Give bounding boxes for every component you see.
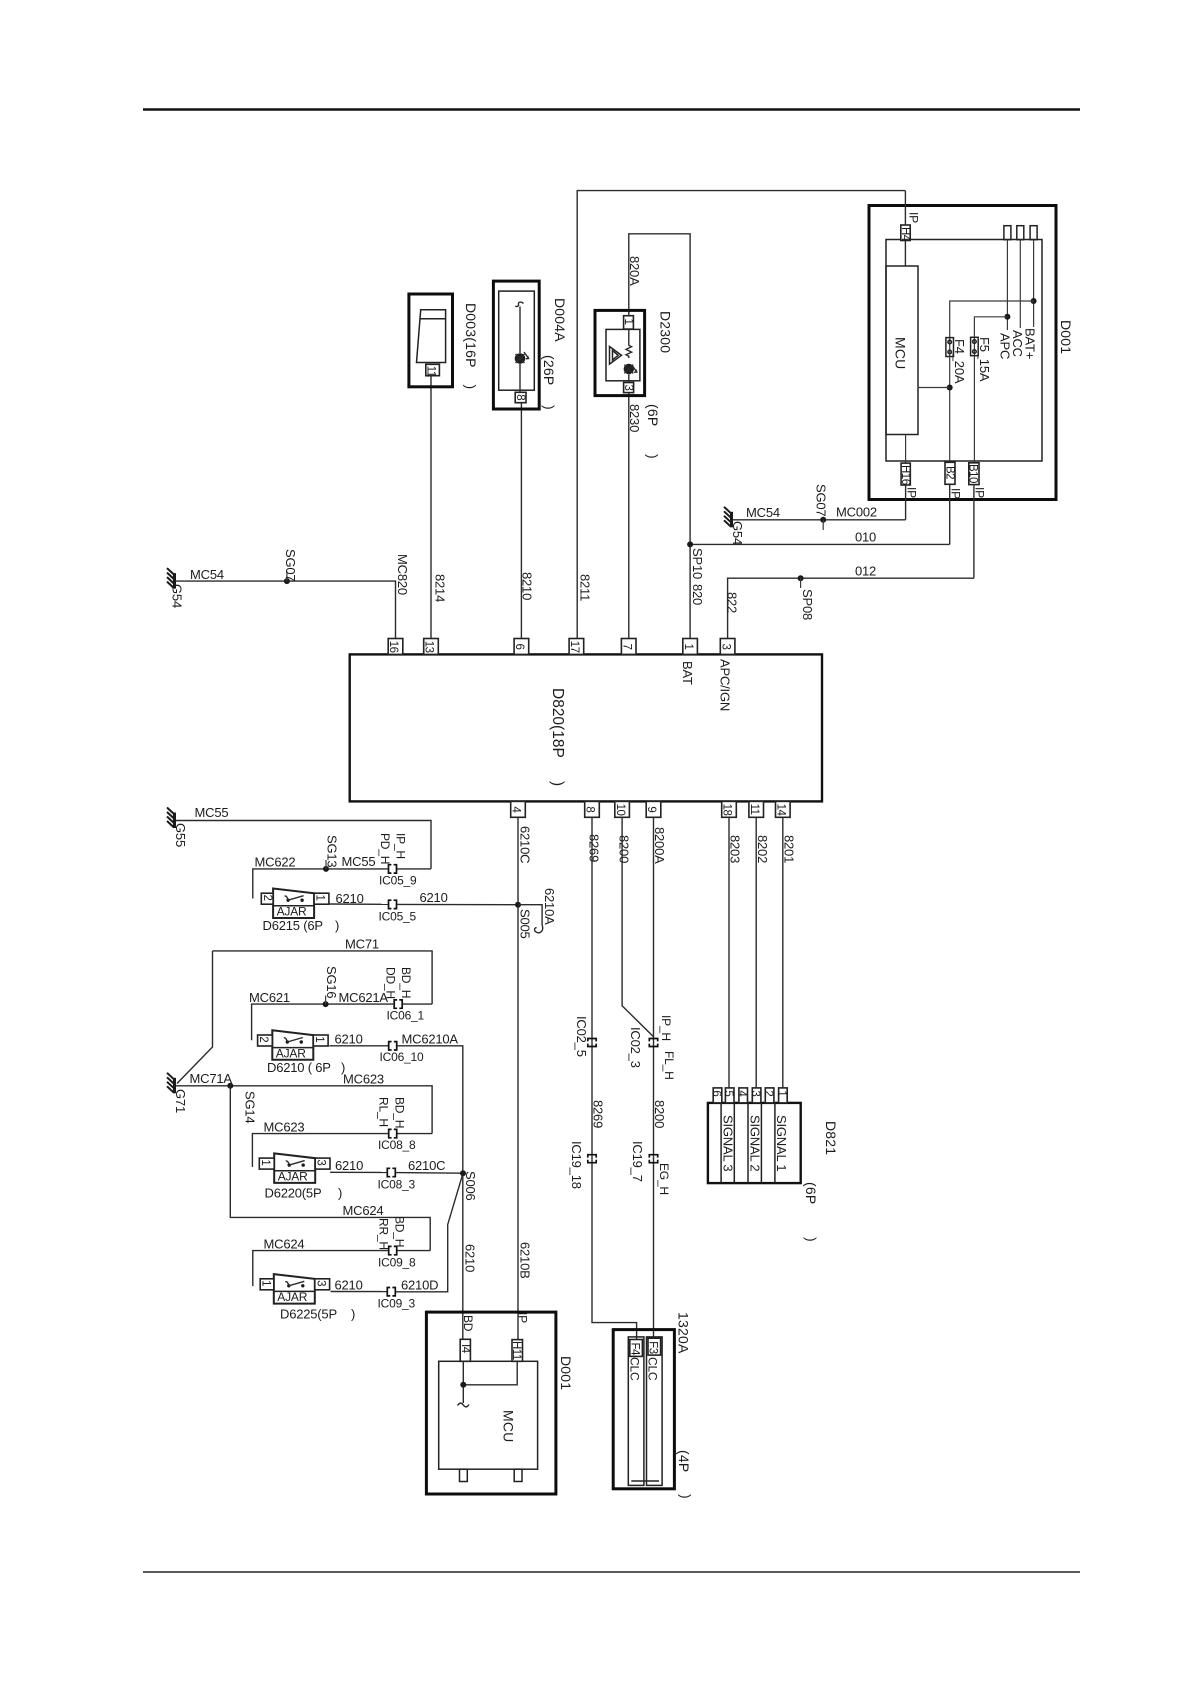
- inline connector IC02_3: [649, 1039, 657, 1047]
- svg-text:G55: G55: [173, 823, 188, 847]
- svg-text:6210C: 6210C: [518, 826, 533, 863]
- svg-text:H16: H16: [899, 465, 911, 485]
- D004A switch contact S: [515, 302, 523, 306]
- svg-text:IC02_5: IC02_5: [574, 1016, 589, 1057]
- svg-text:9: 9: [645, 806, 657, 812]
- wire 822/012 from D820 pin3 to D001 B10: [728, 578, 974, 646]
- junction APC to F5: [1004, 314, 1010, 320]
- svg-text:3: 3: [749, 1090, 761, 1096]
- control unit D820 box: [350, 654, 822, 801]
- pin 16 of D820 (top): [388, 639, 403, 655]
- svg-text:D6220(5P: D6220(5P: [265, 1186, 322, 1201]
- svg-text:SIGNAL 1: SIGNAL 1: [774, 1115, 789, 1171]
- wire MC71 top run: [213, 951, 433, 1004]
- pin 14 of D820 (bottom): [776, 801, 791, 817]
- D2300 lamp with arrow: [624, 364, 634, 374]
- pin B2 of D001: [945, 462, 955, 484]
- supply pin stub ACC: [1017, 226, 1024, 240]
- svg-text:IC19_7: IC19_7: [630, 1141, 645, 1182]
- svg-text:I4: I4: [459, 1344, 471, 1354]
- svg-text:1: 1: [682, 644, 694, 650]
- wire row4 right segment: [397, 1250, 430, 1252]
- svg-text:RL_H: RL_H: [377, 1097, 391, 1127]
- svg-text:3: 3: [622, 385, 634, 391]
- wire row2 right segment: [403, 1003, 433, 1005]
- svg-text:): ): [549, 781, 566, 786]
- svg-text:8: 8: [514, 394, 526, 400]
- dimmer unit D004A outer box: [493, 281, 539, 409]
- MCU stub pin left: [460, 1469, 468, 1481]
- pin 1 of D2300: [624, 316, 634, 329]
- svg-text:8269: 8269: [587, 834, 602, 862]
- splice SP08 on wire 012: [798, 575, 804, 581]
- svg-text:MCU: MCU: [893, 337, 909, 369]
- svg-text:H4: H4: [899, 227, 911, 242]
- svg-text:MC002: MC002: [836, 505, 877, 520]
- svg-text:): ): [338, 1186, 342, 1201]
- ground G54 (right): [724, 507, 732, 528]
- inline connector IC06_10: [389, 1042, 397, 1050]
- svg-text:(26P: (26P: [541, 355, 557, 385]
- wire 6210C to splice S006: [396, 1172, 463, 1175]
- svg-text:MC621A: MC621A: [339, 990, 389, 1005]
- wire MC71A/MC623 to row 3: [176, 1086, 432, 1134]
- svg-text:SG07: SG07: [283, 549, 298, 581]
- door switch D6215: [273, 889, 314, 919]
- wire 820A/820 from D2300 pin1 to D820 pin1: [629, 234, 690, 646]
- splice S005: [515, 902, 521, 908]
- svg-text:8269: 8269: [591, 1100, 606, 1128]
- svg-text:IP: IP: [516, 1312, 530, 1323]
- svg-text:8202: 8202: [755, 835, 770, 863]
- MCU stub pin right: [514, 1469, 522, 1481]
- wire 6210A branch: [518, 905, 542, 925]
- continuation hook 6210A: [535, 925, 543, 933]
- svg-text:IC02_3: IC02_3: [628, 1027, 643, 1068]
- internal MCU signal wires: [462, 1361, 464, 1403]
- door switch D6220: [274, 1153, 315, 1183]
- inline connector IC08_3: [387, 1168, 395, 1176]
- pin I4 of D001 bottom: [460, 1339, 470, 1361]
- svg-text:10: 10: [614, 804, 626, 816]
- svg-text:BD_H: BD_H: [393, 1216, 407, 1247]
- splice SG13: [323, 866, 329, 872]
- svg-text:8200: 8200: [617, 835, 632, 863]
- splice SG07 on MC002: [820, 517, 826, 523]
- junction MC71A: [227, 1083, 233, 1089]
- svg-text:BD_H: BD_H: [399, 967, 413, 998]
- D821 internal columns: [720, 1103, 722, 1183]
- signal unit D821 box: [708, 1103, 801, 1183]
- wire H4 to MCU: [904, 241, 906, 267]
- pin B10 of D001: [969, 463, 979, 485]
- svg-text:8201: 8201: [782, 835, 797, 863]
- svg-text:6210: 6210: [336, 891, 364, 906]
- D2300 resistor: [626, 329, 632, 358]
- svg-text:14: 14: [775, 804, 787, 817]
- svg-text:S005: S005: [518, 909, 533, 939]
- svg-text:MC55: MC55: [195, 805, 229, 820]
- svg-text:IC06_10: IC06_10: [380, 1050, 424, 1064]
- svg-text:1: 1: [260, 1280, 272, 1286]
- svg-text:): ): [335, 918, 339, 933]
- wire B10 drop to 012: [973, 485, 975, 579]
- wire B2 drop to 010: [949, 484, 951, 544]
- D2300 warning triangle: [610, 347, 622, 365]
- svg-text:SIGNAL 3: SIGNAL 3: [721, 1115, 736, 1171]
- svg-text:MC820: MC820: [395, 554, 410, 595]
- svg-text:IC09_3: IC09_3: [378, 1297, 416, 1311]
- svg-text:6210D: 6210D: [401, 1277, 438, 1292]
- wire 8202 from D820 pin11 to D821 pin3: [755, 817, 757, 1088]
- svg-text:(6P: (6P: [645, 404, 661, 426]
- svg-text:8200A: 8200A: [652, 827, 667, 864]
- supply pin BAT+ stub APC: [1004, 226, 1011, 240]
- wire APC to fuse F5: [974, 317, 1007, 338]
- svg-text:MC624: MC624: [264, 1236, 305, 1251]
- svg-text:16: 16: [387, 641, 399, 653]
- svg-text:BAT: BAT: [680, 661, 695, 685]
- svg-text:MC55: MC55: [342, 854, 376, 869]
- svg-text:822: 822: [725, 592, 740, 613]
- connection unit D001 outer box: [869, 206, 1056, 500]
- svg-text:AJAR: AJAR: [277, 1290, 307, 1304]
- svg-text:B2: B2: [944, 466, 956, 479]
- svg-text:820: 820: [690, 584, 705, 605]
- wire SG14 branch down to MC624 row: [230, 1086, 430, 1251]
- junction F4 feed to MCU: [947, 385, 953, 391]
- svg-text:6210: 6210: [335, 1158, 363, 1173]
- svg-text:MCU: MCU: [501, 1410, 517, 1442]
- wire ACC: [1019, 240, 1021, 328]
- svg-text:8200: 8200: [652, 1100, 667, 1128]
- svg-text:MC54: MC54: [190, 567, 224, 582]
- svg-text:D6225(5P: D6225(5P: [280, 1307, 337, 1322]
- signal squiggle arrow: [458, 1403, 469, 1407]
- svg-text:2: 2: [257, 1036, 269, 1042]
- wire 6210D up to splice S006: [396, 1173, 463, 1292]
- svg-text:IC05_5: IC05_5: [379, 910, 417, 924]
- svg-text:820A: 820A: [627, 256, 642, 286]
- svg-text:APC/IGN: APC/IGN: [718, 659, 733, 711]
- door switch D6225: [274, 1274, 315, 1304]
- wire MC820 from G54 to D820 pin16: [176, 581, 396, 646]
- wire 8200A/8200/EG_H from D820 pin9 to 1320A F3: [653, 817, 655, 1338]
- svg-text:8214: 8214: [433, 574, 448, 602]
- wire 8214 from D003 pin11 to D820 pin13: [430, 376, 432, 646]
- svg-text:SG16: SG16: [324, 966, 339, 998]
- svg-text:): ): [351, 1307, 355, 1322]
- D003 rocker symbol: [417, 310, 446, 363]
- svg-text:MC6210A: MC6210A: [402, 1032, 459, 1047]
- svg-text:D004A: D004A: [552, 298, 568, 342]
- svg-text:MC623: MC623: [264, 1119, 305, 1134]
- svg-text:(4P: (4P: [676, 1450, 692, 1472]
- pin 1 of D820 (top): [683, 639, 698, 655]
- svg-text:D003(16P: D003(16P: [463, 303, 479, 368]
- ground G55: [167, 808, 175, 829]
- fuse strip F3 CLC: [647, 1337, 663, 1486]
- svg-text:D6215 (6P: D6215 (6P: [263, 918, 323, 933]
- D004A rheostat/lamp symbol: [515, 353, 526, 364]
- svg-text:5: 5: [722, 1090, 734, 1096]
- wire 8211 from D820 pin17 up and over to D001 H4: [577, 191, 905, 646]
- svg-text:IC09_8: IC09_8: [378, 1255, 416, 1269]
- wire MC623 to D6220 pin1: [252, 1134, 388, 1167]
- svg-text:G54: G54: [730, 521, 745, 545]
- svg-text:MC623: MC623: [343, 1071, 384, 1086]
- svg-text:8: 8: [584, 806, 596, 812]
- D001 inner box: [886, 240, 1042, 462]
- wire 8211 drop into H4: [904, 191, 906, 225]
- svg-text:): ): [463, 385, 479, 390]
- pin 18 of D820 (bottom): [722, 801, 737, 817]
- svg-text:(6P: (6P: [803, 1182, 819, 1204]
- strip bottom link: [631, 1480, 659, 1482]
- svg-text:7: 7: [620, 644, 632, 650]
- inline connector IC05_9: [389, 865, 397, 873]
- svg-text:DD_H: DD_H: [384, 967, 398, 999]
- svg-text:CLC: CLC: [646, 1357, 660, 1381]
- svg-text:D2300: D2300: [658, 311, 674, 353]
- svg-text:6210A: 6210A: [542, 888, 557, 925]
- svg-text:17: 17: [568, 641, 580, 653]
- fuse strip F4 CLC: [628, 1337, 644, 1486]
- inline connector IC02_5: [588, 1039, 596, 1047]
- svg-text:6210: 6210: [335, 1277, 363, 1292]
- bottom rule: [143, 1571, 1080, 1573]
- svg-text:AJAR: AJAR: [278, 1169, 308, 1183]
- MCU block inside D001: [886, 266, 918, 435]
- D821 pins 6 5 4 3 2 1: [713, 1088, 722, 1103]
- inline connector IC08_8: [389, 1129, 397, 1137]
- svg-text:SP08: SP08: [800, 589, 815, 620]
- wire F4 down to B2: [949, 357, 951, 463]
- svg-text:1: 1: [775, 1090, 787, 1096]
- svg-text:AJAR: AJAR: [277, 905, 307, 919]
- pin 3 of D820 (top): [720, 639, 735, 655]
- wire H16 drop: [905, 485, 907, 520]
- pin 7 of D820 (top): [621, 639, 636, 655]
- wire 6210 from D6220 pin3: [330, 1171, 387, 1173]
- splice SG07 on MC820: [284, 578, 290, 584]
- svg-text:IC05_9: IC05_9: [379, 874, 417, 888]
- svg-text:RR_H: RR_H: [377, 1218, 391, 1250]
- svg-text:IP_H: IP_H: [659, 1015, 673, 1041]
- inline connector IC09_8: [389, 1246, 397, 1254]
- wire 8203 from D820 pin18 to D821 pin5: [728, 817, 730, 1088]
- svg-text:6: 6: [513, 644, 525, 650]
- junction BAT+ to F4: [1031, 298, 1037, 304]
- wire 8201 from D820 pin14 to D821 pin1: [782, 817, 784, 1088]
- svg-text:11: 11: [748, 804, 760, 815]
- svg-text:IP: IP: [907, 212, 921, 223]
- wire MC621 to D6210 pin2: [252, 1004, 394, 1040]
- wire MCU bottom to H16: [905, 435, 907, 464]
- svg-text:18: 18: [721, 804, 733, 816]
- inline connector IC06_1: [394, 1000, 402, 1008]
- top rule: [143, 108, 1080, 110]
- svg-text:SG13: SG13: [325, 835, 340, 867]
- svg-text:MC71: MC71: [345, 937, 379, 952]
- wire BAT+ to fuse F4: [950, 301, 1034, 338]
- svg-text:AJAR: AJAR: [276, 1046, 306, 1060]
- MCU block in bottom D001: [439, 1361, 538, 1469]
- wire 8269 from D820 pin8 to 1320A F4: [592, 817, 637, 1340]
- svg-text:MC54: MC54: [746, 505, 780, 520]
- svg-text:): ): [542, 405, 558, 410]
- inline connector IC19_7: [649, 1155, 657, 1163]
- svg-text:F4: F4: [629, 1343, 641, 1357]
- svg-text:MC624: MC624: [343, 1203, 384, 1218]
- svg-text:F3: F3: [647, 1341, 659, 1354]
- svg-text:6210C: 6210C: [408, 1158, 445, 1173]
- svg-text:3: 3: [315, 1159, 327, 1165]
- svg-text:): ): [645, 454, 661, 459]
- pin H4 of D001: [901, 225, 910, 241]
- switch unit D003 outer box: [409, 294, 453, 387]
- svg-text:3: 3: [314, 1280, 326, 1286]
- supply pin stub BAT+: [1030, 226, 1037, 240]
- wire MC622 to D6215 pin2: [253, 869, 388, 899]
- svg-text:6210: 6210: [420, 890, 448, 905]
- svg-text:D820(18P: D820(18P: [549, 688, 566, 758]
- wire MC002 from G54 to D001 H16: [733, 519, 906, 521]
- pin 3 of D2300: [624, 383, 634, 393]
- svg-text:S006: S006: [463, 1171, 478, 1201]
- svg-text:SG07: SG07: [814, 484, 829, 516]
- svg-text:012: 012: [855, 564, 876, 579]
- svg-text:IP: IP: [949, 488, 963, 499]
- svg-text:H11: H11: [510, 1341, 522, 1360]
- svg-text:D001: D001: [558, 1356, 574, 1390]
- wire 6210 from D6215 pin1: [328, 903, 388, 905]
- svg-text:1: 1: [313, 1036, 325, 1042]
- svg-text:IC19_18: IC19_18: [569, 1141, 584, 1189]
- svg-text:IC08_3: IC08_3: [378, 1178, 416, 1192]
- svg-text:2: 2: [261, 895, 273, 901]
- pin 11 of D820 (bottom): [749, 801, 764, 817]
- wire MC6210A/6210 down to D901 pin I4: [397, 1046, 463, 1340]
- splice S006: [460, 1170, 466, 1176]
- D004A inner box: [499, 291, 535, 390]
- svg-text:11: 11: [425, 366, 437, 377]
- pin 6 of D820 (top): [514, 639, 529, 655]
- wire BAT+: [1033, 240, 1035, 327]
- wire to MCU right side: [918, 387, 950, 389]
- splice SP10 on wire 820: [687, 541, 693, 547]
- wire inside D004A: [519, 307, 521, 354]
- wire 6210 to splice S005: [397, 903, 518, 905]
- svg-text:SG14: SG14: [243, 1091, 258, 1123]
- pin H11 of D001 bottom: [512, 1340, 523, 1362]
- svg-text:1: 1: [622, 319, 634, 325]
- wire 8200 from D820 pin10 diagonal to IC02_3: [622, 817, 653, 1037]
- svg-text:F4_20A: F4_20A: [952, 339, 967, 384]
- junction inside MCU: [460, 1382, 466, 1388]
- svg-text:6210: 6210: [335, 1032, 363, 1047]
- pin H16 of D001: [901, 463, 910, 485]
- pin 8 of D820 (bottom): [585, 801, 600, 817]
- pin F3 of 1320A: [648, 1338, 661, 1355]
- svg-text:BAT+: BAT+: [1023, 328, 1038, 359]
- svg-text:G71: G71: [173, 1089, 188, 1113]
- svg-text:1: 1: [314, 895, 326, 901]
- instrument unit D001 (bottom) outer box: [426, 1312, 556, 1494]
- svg-text:IC06_1: IC06_1: [387, 1009, 425, 1023]
- svg-text:8203: 8203: [728, 835, 743, 863]
- svg-text:MC71A: MC71A: [190, 1071, 233, 1086]
- svg-text:8230: 8230: [627, 404, 642, 432]
- svg-text:8210: 8210: [520, 572, 535, 600]
- inline connector IC05_5: [389, 900, 397, 908]
- svg-text:SIGNAL 2: SIGNAL 2: [747, 1115, 762, 1171]
- door switch D6210: [272, 1030, 313, 1060]
- svg-text:D6210 ( 6P: D6210 ( 6P: [267, 1060, 331, 1075]
- svg-text:MC621: MC621: [249, 990, 290, 1005]
- svg-text:PD_H: PD_H: [378, 833, 392, 864]
- fuse F4_20A: [949, 338, 951, 357]
- ground G71: [167, 1073, 175, 1094]
- svg-text:MC622: MC622: [255, 855, 296, 870]
- svg-text:B10: B10: [967, 464, 979, 483]
- pin 8 of D004A: [515, 392, 526, 402]
- svg-text:6210B: 6210B: [518, 1242, 533, 1279]
- wire F5 down to B10: [973, 356, 975, 463]
- pin F4 of 1320A: [630, 1340, 643, 1357]
- inline connector IC09_3: [387, 1288, 395, 1296]
- svg-text:1320A: 1320A: [676, 1312, 692, 1354]
- svg-text:13: 13: [423, 641, 435, 653]
- svg-text:EG_H: EG_H: [657, 1163, 671, 1195]
- svg-text:3: 3: [719, 644, 731, 650]
- svg-text:D001: D001: [1058, 320, 1074, 354]
- svg-text:BD: BD: [461, 1315, 475, 1332]
- wire 6210 from D6225 pin3: [331, 1291, 387, 1293]
- svg-text:F5_15A: F5_15A: [977, 337, 992, 382]
- svg-text:010: 010: [855, 530, 876, 545]
- wire 6210C/6210B from D820 pin4 to D901 H11: [517, 817, 519, 1339]
- svg-text:D821: D821: [823, 1121, 839, 1155]
- pin 9 of D820 (bottom): [646, 801, 661, 817]
- wire row3 right segment: [397, 1133, 432, 1135]
- svg-text:IC08_8: IC08_8: [378, 1138, 416, 1152]
- wire MC55 from G55 to row 1: [176, 821, 431, 869]
- wire 6210 from D6210 pin1: [329, 1045, 388, 1047]
- inline connector IC19_18: [588, 1155, 596, 1163]
- wire 8210 from D004A pin8 to D820 pin6: [520, 403, 522, 646]
- svg-text:FL_H: FL_H: [662, 1051, 676, 1080]
- wire MC624 to D6225 pin1: [253, 1251, 389, 1287]
- D2300 inner box: [606, 329, 640, 380]
- pin 10 of D820 (bottom): [615, 801, 630, 817]
- pin 13 of D820 (top): [424, 639, 439, 655]
- fuse F5_15A: [973, 337, 975, 355]
- ground G54 (left): [167, 568, 175, 589]
- svg-text:IP_H: IP_H: [394, 833, 408, 859]
- svg-text:2: 2: [762, 1090, 774, 1096]
- wire 8230 from D2300 pin3 to D820 pin7: [628, 393, 630, 646]
- svg-text:6: 6: [710, 1090, 722, 1096]
- wire G71 riser to MC71: [177, 951, 213, 1084]
- fuse unit 1320A box: [613, 1330, 674, 1489]
- svg-text:G54: G54: [170, 584, 185, 608]
- svg-text:): ): [678, 1494, 694, 1499]
- svg-text:BD_H: BD_H: [393, 1097, 407, 1128]
- pin 17 of D820 (top): [569, 639, 584, 655]
- svg-text:6210: 6210: [463, 1244, 478, 1272]
- svg-text:IP: IP: [905, 487, 919, 498]
